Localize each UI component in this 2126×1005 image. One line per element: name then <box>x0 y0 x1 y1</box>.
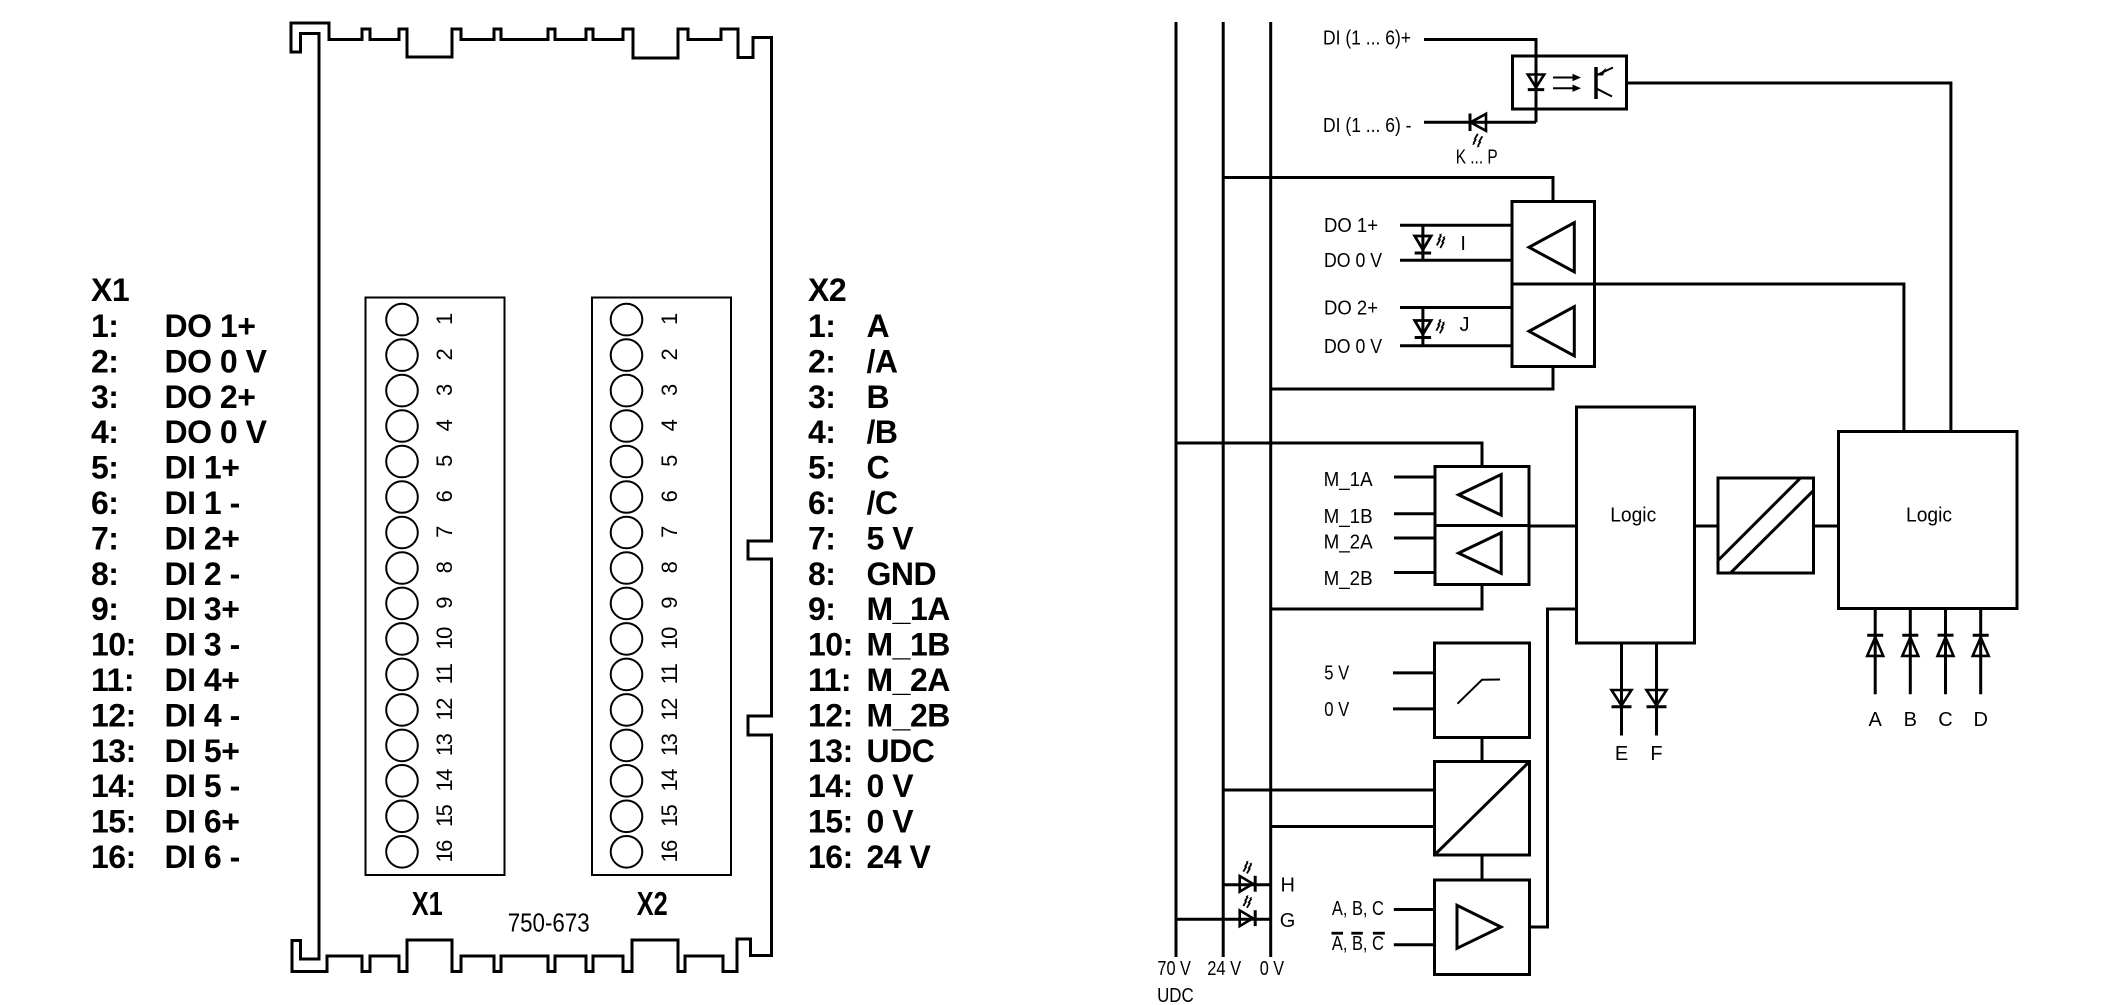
svg-text:7:: 7: <box>91 520 118 556</box>
wire A,B,C <box>1394 908 1435 911</box>
svg-text:13: 13 <box>657 733 682 756</box>
svg-text:H: H <box>1281 875 1295 897</box>
svg-text:DI 5 -: DI 5 - <box>165 768 240 804</box>
power rail 24 V <box>1222 22 1225 957</box>
wire driver output up into Logic <box>1529 609 1577 927</box>
power rail 70 V UDC <box>1175 22 1178 957</box>
svg-text:16: 16 <box>657 840 682 863</box>
svg-text:A, B, C: A, B, C <box>1332 898 1384 920</box>
svg-text:B: B <box>1904 709 1917 731</box>
wire M buffer bottom to 0V rail <box>1271 585 1482 610</box>
diode C data line <box>1938 609 1954 695</box>
svg-text:8: 8 <box>432 561 457 573</box>
logic block U3 (fieldbus side) <box>1839 432 2018 609</box>
svg-text:4: 4 <box>657 419 682 431</box>
wire 24V rail to DC/DC converter <box>1223 789 1434 792</box>
svg-text:14: 14 <box>657 769 682 792</box>
pin assignment list X2 <box>808 308 950 875</box>
svg-text:DI (1 ... 6)+: DI (1 ... 6)+ <box>1323 27 1411 49</box>
DO output driver 2 <box>1512 284 1595 367</box>
svg-text:M_1A: M_1A <box>867 591 951 627</box>
svg-text:DI 2+: DI 2+ <box>165 520 240 556</box>
diode D data line <box>1973 609 1989 695</box>
logic block U2 <box>1577 407 1695 643</box>
svg-text:0 V: 0 V <box>1260 958 1285 980</box>
LED G (70V status) <box>1176 895 1271 926</box>
svg-text:11:: 11: <box>91 662 134 698</box>
svg-text:DI 6+: DI 6+ <box>165 804 240 840</box>
svg-text:/A: /A <box>867 343 898 379</box>
M_1 input buffer <box>1435 467 1529 526</box>
svg-text:10:: 10: <box>91 627 136 663</box>
svg-text:DI 4+: DI 4+ <box>165 662 240 698</box>
svg-text:A: A <box>867 308 890 344</box>
svg-text:X1: X1 <box>91 272 129 308</box>
wire 24V rail to DO driver top <box>1223 178 1553 202</box>
wire DI+ to optocoupler <box>1424 40 1536 123</box>
svg-text:750-673: 750-673 <box>508 908 590 938</box>
svg-text:A: A <box>1869 709 1883 731</box>
svg-text:1:: 1: <box>808 308 835 344</box>
svg-text:6: 6 <box>432 490 457 502</box>
svg-text:15: 15 <box>657 804 682 827</box>
svg-text:1: 1 <box>432 313 457 325</box>
svg-text:5: 5 <box>432 455 457 467</box>
wire 5 V <box>1393 671 1435 674</box>
svg-text:15:: 15: <box>91 804 136 840</box>
LED J (DO2 status) <box>1415 308 1445 346</box>
svg-text:6:: 6: <box>91 485 118 521</box>
svg-text:14: 14 <box>432 769 457 792</box>
svg-text:15:: 15: <box>808 804 853 840</box>
module 750-673 housing outline <box>291 23 772 972</box>
svg-text:14:: 14: <box>808 768 853 804</box>
wire M_1A <box>1394 476 1435 479</box>
svg-text:DO 0 V: DO 0 V <box>165 414 268 450</box>
svg-text:5 V: 5 V <box>1324 663 1350 685</box>
wire M_2B <box>1394 571 1435 574</box>
svg-text:DO 0 V: DO 0 V <box>1324 336 1383 358</box>
svg-text:DO 0 V: DO 0 V <box>1324 250 1383 272</box>
wire DO 2+ <box>1400 306 1512 309</box>
svg-text:9:: 9: <box>91 591 118 627</box>
svg-text:DO 1+: DO 1+ <box>165 308 256 344</box>
voltage monitor block <box>1435 643 1530 738</box>
wire M buffers to Logic <box>1529 525 1577 528</box>
svg-text:5 V: 5 V <box>867 520 915 556</box>
DC/DC converter <box>1435 762 1530 856</box>
svg-text:4: 4 <box>432 419 457 431</box>
svg-text:8: 8 <box>657 561 682 573</box>
svg-text:I: I <box>1460 233 1466 255</box>
svg-text:M_2B: M_2B <box>1324 568 1373 590</box>
svg-text:12: 12 <box>432 698 457 721</box>
svg-text:DI 6 -: DI 6 - <box>165 839 240 875</box>
svg-text:7: 7 <box>657 526 682 538</box>
svg-text:16:: 16: <box>91 839 136 875</box>
svg-text:J: J <box>1460 314 1470 336</box>
svg-text:G: G <box>1280 910 1296 932</box>
svg-text:9: 9 <box>657 597 682 609</box>
galvanic isolator (DC/DC) <box>1718 478 1814 573</box>
wire DC/DC to line driver <box>1481 855 1484 880</box>
svg-text:13:: 13: <box>91 733 136 769</box>
connector X1 pin numbers 1-16 <box>432 313 457 863</box>
svg-text:2:: 2: <box>91 343 118 379</box>
svg-text:11:: 11: <box>808 662 851 698</box>
svg-text:9:: 9: <box>808 591 835 627</box>
svg-text:4:: 4: <box>808 414 835 450</box>
svg-text:DO 1+: DO 1+ <box>1324 215 1378 237</box>
svg-text:DI 1+: DI 1+ <box>165 450 240 486</box>
svg-text:7:: 7: <box>808 520 835 556</box>
svg-text:DI 4 -: DI 4 - <box>165 697 240 733</box>
wire 70V rail to M buffer top <box>1176 443 1482 467</box>
connector X2 body <box>592 298 731 876</box>
svg-text:DI 2 -: DI 2 - <box>165 556 240 592</box>
svg-text:3: 3 <box>657 384 682 396</box>
svg-text:5: 5 <box>657 455 682 467</box>
wire monitor to DC/DC converter <box>1481 738 1484 762</box>
wire DO 1+ <box>1400 224 1512 227</box>
svg-text:2: 2 <box>657 348 682 360</box>
svg-text:24 V: 24 V <box>867 839 932 875</box>
svg-text:12:: 12: <box>91 697 136 733</box>
wire 0V rail to DC/DC converter <box>1271 825 1435 828</box>
svg-text:DI 3+: DI 3+ <box>165 591 240 627</box>
optocoupler U1 <box>1513 56 1627 109</box>
svg-text:M_1B: M_1B <box>867 627 950 663</box>
svg-text:DO 2+: DO 2+ <box>1324 297 1378 319</box>
DO output driver 1 <box>1512 202 1595 285</box>
svg-text:3:: 3: <box>808 379 835 415</box>
svg-text:10: 10 <box>432 627 457 650</box>
svg-text:DO 0 V: DO 0 V <box>165 343 268 379</box>
svg-text:M_2A: M_2A <box>1324 532 1374 554</box>
wire isolator to right Logic <box>1814 525 1839 528</box>
svg-text:X2: X2 <box>637 885 668 922</box>
svg-text:11: 11 <box>657 663 682 684</box>
svg-text:DI (1 ... 6) -: DI (1 ... 6) - <box>1323 115 1412 137</box>
svg-text:16: 16 <box>432 840 457 863</box>
wire Logic to isolator <box>1695 525 1719 528</box>
M_2 input buffer <box>1435 526 1529 585</box>
svg-text:M_2A: M_2A <box>867 662 951 698</box>
svg-text:2: 2 <box>432 348 457 360</box>
svg-text:5:: 5: <box>91 450 118 486</box>
svg-text:0 V: 0 V <box>1324 699 1350 721</box>
svg-text:4:: 4: <box>91 414 118 450</box>
wire DI- with LED K...P <box>1424 121 1536 124</box>
svg-text:K ... P: K ... P <box>1456 147 1498 169</box>
wire 0 V <box>1393 707 1435 710</box>
svg-text:B: B <box>867 379 890 415</box>
svg-text:C: C <box>867 450 890 486</box>
diode F output <box>1647 643 1667 736</box>
svg-text:7: 7 <box>432 526 457 538</box>
LED H (24V status) <box>1223 861 1271 892</box>
svg-text:15: 15 <box>432 804 457 827</box>
node /A, /B, /C label <box>1332 933 1385 955</box>
pin assignment list X1 <box>91 308 268 875</box>
svg-text:GND: GND <box>867 556 937 592</box>
diode E output <box>1612 643 1632 736</box>
RS-422 line driver <box>1435 880 1530 975</box>
svg-text:11: 11 <box>432 663 457 684</box>
svg-text:DI 1 -: DI 1 - <box>165 485 240 521</box>
svg-text:/C: /C <box>867 485 898 521</box>
wire optocoupler output to right Logic <box>1627 83 1951 432</box>
svg-text:DO 2+: DO 2+ <box>165 379 256 415</box>
svg-text:6:: 6: <box>808 485 835 521</box>
LED K...P (input status) <box>1470 114 1486 148</box>
svg-text:DI 5+: DI 5+ <box>165 733 240 769</box>
LED I (DO1 status) <box>1415 225 1446 260</box>
connector X2 pin numbers 1-16 <box>657 313 682 863</box>
svg-text:8:: 8: <box>91 556 118 592</box>
svg-text:C: C <box>1938 709 1952 731</box>
wire DO 0 V (2) <box>1400 344 1512 347</box>
svg-text:DI 3 -: DI 3 - <box>165 627 240 663</box>
svg-text:X2: X2 <box>808 272 846 308</box>
wire DO 0 V <box>1400 259 1512 262</box>
svg-text:10:: 10: <box>808 627 853 663</box>
svg-text:3: 3 <box>432 384 457 396</box>
svg-text:/B: /B <box>867 414 898 450</box>
svg-text:M_1B: M_1B <box>1324 506 1373 528</box>
svg-text:10: 10 <box>657 627 682 650</box>
svg-text:F: F <box>1650 743 1662 765</box>
svg-text:Logic: Logic <box>1610 505 1656 527</box>
svg-text:UDC: UDC <box>867 733 935 769</box>
svg-text:13:: 13: <box>808 733 853 769</box>
wire M_1B <box>1394 512 1435 515</box>
diode B data line <box>1902 609 1918 695</box>
svg-text:A, B, C: A, B, C <box>1332 933 1384 955</box>
wire M_2A <box>1394 537 1435 540</box>
svg-text:M_1A: M_1A <box>1324 469 1374 491</box>
svg-text:UDC: UDC <box>1157 985 1194 1005</box>
svg-text:2:: 2: <box>808 343 835 379</box>
svg-text:1:: 1: <box>91 308 118 344</box>
svg-text:Logic: Logic <box>1906 505 1952 527</box>
svg-text:D: D <box>1973 709 1987 731</box>
svg-text:0 V: 0 V <box>867 768 915 804</box>
diode A data line <box>1867 609 1883 695</box>
svg-text:14:: 14: <box>91 768 136 804</box>
svg-text:16:: 16: <box>808 839 853 875</box>
wire /A,/B,/C <box>1394 943 1435 946</box>
connector X1 body <box>366 298 505 876</box>
power rail 0 V <box>1269 22 1272 957</box>
svg-text:70 V: 70 V <box>1157 958 1191 980</box>
svg-text:M_2B: M_2B <box>867 697 950 733</box>
svg-text:1: 1 <box>657 313 682 325</box>
wire DO driver bottom to 0V rail <box>1271 367 1553 390</box>
svg-text:8:: 8: <box>808 556 835 592</box>
svg-text:12:: 12: <box>808 697 853 733</box>
svg-text:12: 12 <box>657 698 682 721</box>
svg-text:X1: X1 <box>412 885 443 922</box>
svg-text:24 V: 24 V <box>1207 958 1242 980</box>
svg-text:9: 9 <box>432 597 457 609</box>
svg-text:3:: 3: <box>91 379 118 415</box>
svg-text:E: E <box>1615 743 1628 765</box>
svg-text:6: 6 <box>657 490 682 502</box>
svg-text:0 V: 0 V <box>867 804 915 840</box>
wire DO drivers to right Logic <box>1595 284 1904 432</box>
svg-text:5:: 5: <box>808 450 835 486</box>
svg-text:13: 13 <box>432 733 457 756</box>
